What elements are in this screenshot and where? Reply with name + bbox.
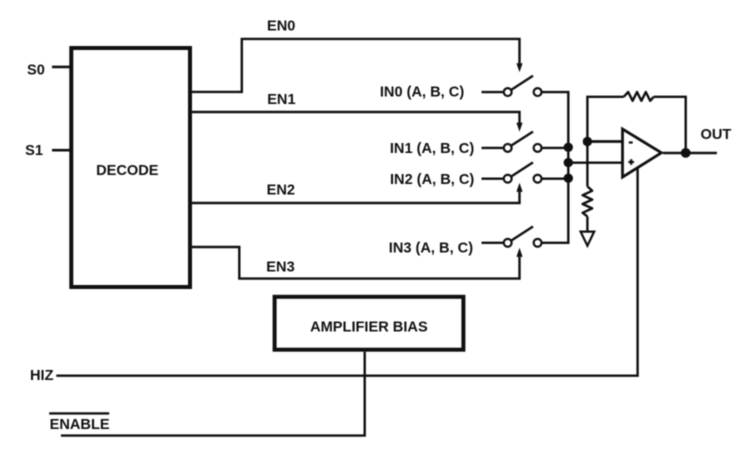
- svg-text:DECODE: DECODE: [96, 163, 159, 179]
- svg-text:EN0: EN0: [267, 19, 295, 35]
- svg-text:HIZ: HIZ: [30, 368, 54, 384]
- svg-text:IN1 (A, B, C): IN1 (A, B, C): [390, 141, 474, 157]
- svg-text:AMPLIFIER BIAS: AMPLIFIER BIAS: [310, 319, 428, 335]
- svg-text:S0: S0: [27, 62, 45, 78]
- svg-text:IN2 (A, B, C): IN2 (A, B, C): [390, 172, 474, 188]
- svg-text:S1: S1: [25, 143, 43, 159]
- svg-text:IN0 (A, B, C): IN0 (A, B, C): [380, 85, 464, 101]
- svg-text:IN3 (A, B, C): IN3 (A, B, C): [389, 240, 473, 256]
- svg-text:ENABLE: ENABLE: [50, 417, 110, 433]
- svg-text:EN3: EN3: [266, 260, 294, 276]
- svg-text:EN1: EN1: [267, 92, 295, 108]
- svg-text:OUT: OUT: [701, 127, 732, 143]
- svg-text:EN2: EN2: [267, 182, 295, 198]
